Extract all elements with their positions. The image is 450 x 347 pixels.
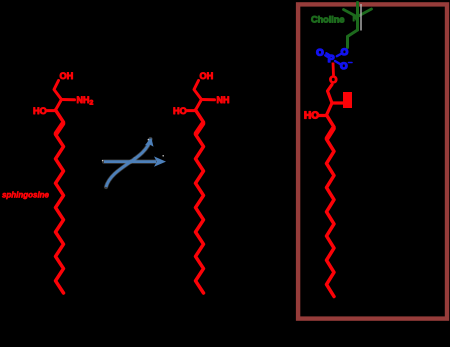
svg-text:HO: HO [304,111,319,122]
phosphate group atoms O,P,O,O- (blue) [316,47,348,72]
bond C2-NH amide (sphingomyelin) [332,101,343,104]
bond C2-NH (ceramide) [202,98,215,101]
svg-text:sphingosine: sphingosine [2,191,50,200]
phosphate bonds: O-P, P=O double, P-O- and minus charge (blue) [325,53,352,64]
label NH2 (sphingosine C2) [77,95,94,106]
bond C3-OH (sphingosine) [46,109,56,112]
double bond C4=C5 (sphingomyelin) [327,129,333,139]
label OH (ceramide C1) [200,71,214,81]
double bond C4=C5 (ceramide) [196,124,203,134]
white speckles near arrows [102,139,164,162]
svg-text:O: O [329,75,337,86]
bond C1-OH head (sphingosine) [54,81,62,100]
bond O-C1 head (sphingomyelin) [328,85,333,104]
svg-text:HO: HO [33,106,47,116]
svg-text:Choline: Choline [311,15,345,26]
bond C2-NH2 (sphingosine) [62,98,75,101]
svg-text:OH: OH [200,71,214,81]
svg-text:O: O [316,48,323,59]
svg-text:O: O [341,47,348,58]
atom N of choline (green) [353,14,359,23]
double bond C4=C5 (sphingosine) [56,124,63,134]
bond C1-OH head (ceramide) [194,81,202,100]
svg-text:HO: HO [173,106,187,116]
caption "sphingosine" (red italic) [2,191,50,200]
bond P-O to glycerol CH2 (red) [332,63,335,76]
hydrocarbon chain C3-C18 (ceramide) [196,110,204,293]
svg-text:N: N [353,14,359,23]
hydrocarbon chain C3-C18 (sphingosine) [56,110,64,293]
label HO (sphingosine C3) [33,106,47,116]
label "Choline" (green) [311,15,345,26]
svg-text:NH: NH [217,95,230,105]
label NH (ceramide C2 amide) [217,95,230,105]
bond C2-C3 (ceramide) [196,100,202,111]
bond C3-OH (sphingomyelin) [319,114,327,117]
label OH (sphingosine C1) [60,71,74,81]
label HO (sphingomyelin C3) [304,111,319,122]
atom O phosphoester (red) [329,75,337,86]
label HO (ceramide C3) [173,106,187,116]
reaction arrow (straight, blue) [104,156,166,166]
choline N(CH3)3 bonds (green) [344,3,372,31]
bond C3-OH (ceramide) [186,109,196,112]
highlight box (dark brick red) around sphingomyelin [298,4,447,318]
red block marker at amide N (sphingomyelin) [343,92,352,108]
svg-text:O: O [340,61,347,72]
gray highlight line beside choline N [360,4,362,31]
bond C2-C3 (sphingosine) [56,100,62,111]
white antialias halo of reaction arrows [104,139,156,187]
svg-text:OH: OH [60,71,74,81]
cofactor curved arrow (blue S-curve) [106,138,154,187]
bond C2-C3 (sphingomyelin) [327,103,333,115]
choline N-CH2-CH2 link (green) [348,30,358,48]
hydrocarbon chain C3-C18 (sphingomyelin) [327,115,335,297]
